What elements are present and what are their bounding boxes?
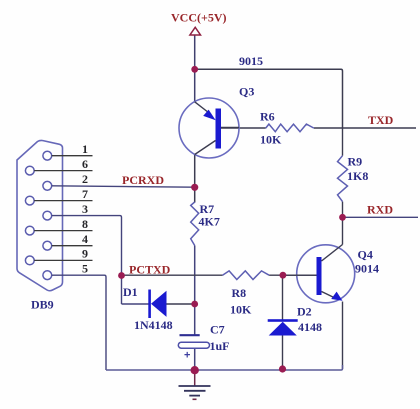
- svg-text:R8: R8: [232, 286, 247, 300]
- svg-text:5: 5: [82, 262, 88, 276]
- svg-text:VCC(+5V): VCC(+5V): [171, 11, 227, 25]
- svg-text:R6: R6: [260, 110, 275, 124]
- svg-text:PCRXD: PCRXD: [122, 173, 164, 187]
- svg-text:10K: 10K: [260, 133, 282, 147]
- svg-text:TXD: TXD: [368, 113, 394, 127]
- svg-text:C7: C7: [210, 323, 225, 337]
- svg-text:PCTXD: PCTXD: [129, 263, 171, 277]
- svg-text:RXD: RXD: [367, 203, 393, 217]
- svg-text:9014: 9014: [355, 261, 379, 275]
- svg-text:Q3: Q3: [239, 85, 254, 99]
- svg-text:4148: 4148: [298, 320, 322, 334]
- svg-text:9015: 9015: [239, 54, 263, 68]
- svg-text:2: 2: [82, 172, 88, 186]
- svg-text:7: 7: [82, 187, 88, 201]
- svg-text:4K7: 4K7: [199, 214, 220, 228]
- svg-text:DB9: DB9: [31, 298, 54, 312]
- svg-text:6: 6: [82, 157, 88, 171]
- svg-text:R9: R9: [348, 155, 363, 169]
- svg-text:10K: 10K: [230, 303, 252, 317]
- svg-text:3: 3: [82, 202, 88, 216]
- svg-text:8: 8: [82, 217, 88, 231]
- svg-text:D1: D1: [123, 285, 138, 299]
- svg-text:1N4148: 1N4148: [134, 318, 173, 332]
- svg-text:1K8: 1K8: [347, 169, 368, 183]
- svg-text:Q4: Q4: [358, 248, 373, 262]
- svg-text:9: 9: [82, 247, 88, 261]
- svg-text:4: 4: [82, 232, 88, 246]
- svg-text:1: 1: [82, 142, 88, 156]
- svg-text:+: +: [184, 350, 190, 362]
- svg-text:D2: D2: [297, 304, 312, 318]
- svg-text:1uF: 1uF: [210, 339, 230, 353]
